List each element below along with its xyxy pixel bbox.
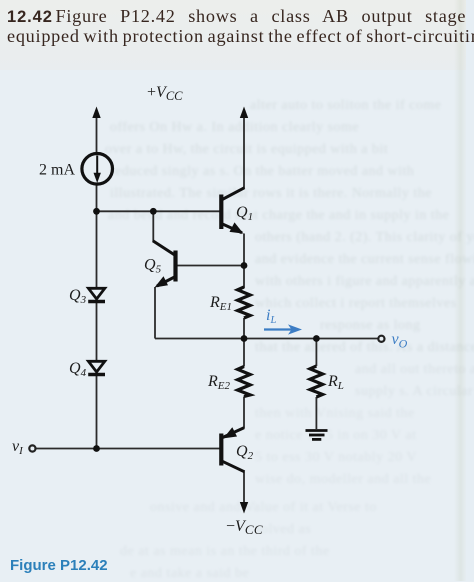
svg-text:Q5: Q5 <box>144 257 162 276</box>
svg-text:vI: vI <box>12 438 24 457</box>
svg-text:Q4: Q4 <box>69 360 87 379</box>
svg-text:RL: RL <box>327 373 344 392</box>
svg-text:vO: vO <box>392 331 408 351</box>
svg-text:RE2: RE2 <box>207 373 231 392</box>
svg-text:Q1: Q1 <box>236 204 253 223</box>
svg-text:Q2: Q2 <box>236 443 254 462</box>
svg-text:−VCC: −VCC <box>226 518 263 537</box>
svg-text:2 mA: 2 mA <box>39 162 75 179</box>
svg-text:RE1: RE1 <box>209 294 232 313</box>
svg-text:+VCC: +VCC <box>147 84 183 103</box>
svg-text:Q3: Q3 <box>69 287 87 306</box>
svg-text:iL: iL <box>266 307 276 326</box>
